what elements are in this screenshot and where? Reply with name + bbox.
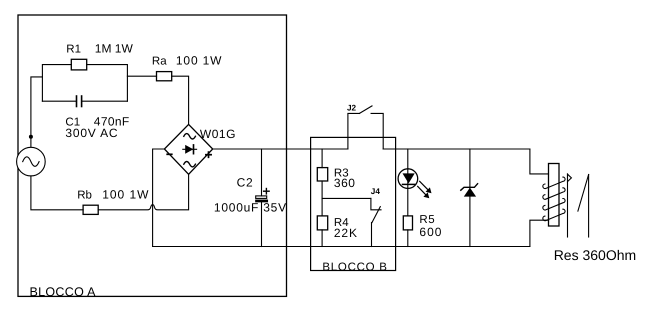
zener diode branch (469, 149, 471, 247)
svg-text:R5: R5 (419, 214, 435, 226)
relay coil body (549, 164, 560, 227)
wire to bridge top (172, 76, 189, 124)
top rail left of J2 (213, 148, 348, 150)
resistor Ra (157, 72, 172, 81)
svg-text:BLOCCO B: BLOCCO B (322, 261, 387, 273)
junction dot (29, 135, 33, 139)
relay coil K1 connection top (530, 149, 549, 174)
bridge AC tilde top (184, 134, 196, 139)
wire C1 bottom left (42, 100, 76, 102)
svg-text:1000uF 35V: 1000uF 35V (214, 201, 287, 215)
resistor R1 (71, 59, 86, 70)
resistor R3 branch (321, 149, 323, 168)
BLOCCO A box (18, 15, 287, 296)
svg-text:22K: 22K (334, 226, 358, 240)
svg-text:100 1W: 100 1W (102, 188, 149, 202)
zener Z1 (464, 188, 476, 197)
svg-text:W01G: W01G (200, 127, 236, 141)
svg-text:BLOCCO A: BLOCCO A (30, 285, 97, 299)
bridge rectifier B1 W01G (164, 124, 212, 174)
capacitor C2 (261, 149, 263, 196)
svg-text:J4: J4 (371, 187, 381, 196)
svg-text:100 1W: 100 1W (176, 54, 222, 68)
relay coil connection bottom (530, 220, 549, 246)
resistor Rb (83, 205, 98, 214)
svg-text:J2: J2 (347, 104, 357, 113)
relay contact common pin (567, 174, 569, 237)
svg-text:Rb: Rb (77, 190, 92, 202)
svg-text:360: 360 (334, 176, 356, 190)
svg-text:Ra: Ra (152, 56, 167, 68)
relay contact blade pin (588, 175, 590, 238)
resistor R5 (403, 216, 412, 230)
svg-text:Res 360Ohm: Res 360Ohm (554, 247, 636, 263)
resistor R4 (317, 216, 327, 230)
switch J2 (348, 113, 360, 149)
bridge diode (183, 148, 197, 150)
bridge minus (167, 153, 172, 155)
wire (87, 65, 128, 102)
LED arrows (418, 181, 432, 198)
wire (82, 100, 128, 102)
wire source bottom (31, 176, 83, 210)
LED D1 (398, 169, 418, 189)
LED branch (407, 149, 409, 216)
svg-text:1M 1W: 1M 1W (95, 41, 134, 55)
svg-text:C2: C2 (237, 176, 254, 190)
wire bridge left vertex down (153, 149, 165, 247)
svg-text:R1: R1 (66, 43, 81, 55)
svg-text:600: 600 (419, 225, 442, 239)
svg-text:300V AC: 300V AC (65, 126, 118, 140)
coil turns (543, 177, 565, 221)
bridge AC tilde bottom (184, 162, 196, 167)
wire Ra feed (127, 75, 156, 77)
AC source G1 (17, 147, 46, 176)
bridge plus (206, 152, 211, 157)
wire R1 top (42, 65, 71, 102)
C2 plus (264, 189, 270, 194)
wire with hop over vertical (98, 174, 188, 210)
bottom rail (153, 246, 530, 248)
switch J4 (322, 197, 371, 199)
BLOCCO B box (311, 137, 396, 270)
top rail right of J2 (383, 148, 530, 150)
capacitor C1 (77, 96, 82, 107)
feed wire from source (31, 77, 43, 147)
